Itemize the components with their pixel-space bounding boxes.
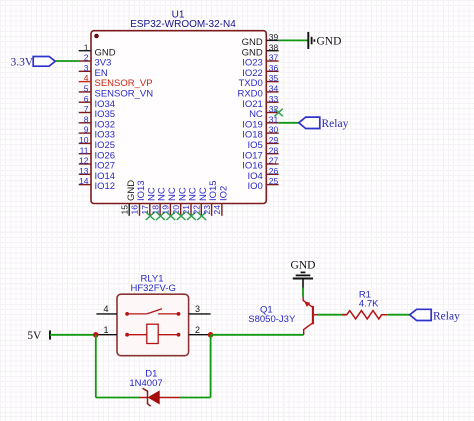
wire bottom right up to relay pin 2 junction xyxy=(210,335,212,398)
ground symbol GND (right of pin 39, rotated) xyxy=(308,32,341,49)
wire junction down left side to D1 xyxy=(95,335,97,398)
U1 pin 30 IO18 (right) xyxy=(242,125,278,141)
svg-text:10: 10 xyxy=(79,135,89,145)
RLY1 pin 4 stub xyxy=(96,304,117,314)
U1 pin 37 IO23 (right) xyxy=(242,53,278,69)
svg-text:4.7K: 4.7K xyxy=(359,298,379,309)
U1 pin 36 IO22 (right) xyxy=(242,63,278,79)
U1 pin 19 no-connect X flag xyxy=(166,212,175,220)
U1 pin 11 IO26 (left) xyxy=(79,145,115,161)
svg-text:2: 2 xyxy=(84,53,89,63)
svg-text:23: 23 xyxy=(202,205,212,215)
transistor Q1 S8050-J3Y xyxy=(303,297,317,335)
svg-text:14: 14 xyxy=(79,176,89,186)
net label Relay (at R1) xyxy=(410,309,460,322)
U1 pin 22 NC (bottom) xyxy=(192,187,209,216)
U1 pin 23 IO15 (bottom) xyxy=(202,180,219,215)
wire Q1 base to R1 xyxy=(318,314,347,316)
U1 pin 31 IO19 (right) xyxy=(242,114,278,130)
RLY1 pin 3 stub xyxy=(189,304,211,314)
wire 5V to relay pin 1 xyxy=(50,334,96,336)
U1 pin 3 EN (left) xyxy=(79,63,108,79)
ground symbol GND (above Q1) xyxy=(291,259,316,288)
wire D1 to bottom right xyxy=(180,397,211,399)
U1 pin 39 GND (right) xyxy=(242,32,279,48)
RLY1 switch contact (top row) xyxy=(125,309,180,316)
svg-text:4: 4 xyxy=(103,304,108,314)
U1 pin 21 no-connect X flag xyxy=(187,212,196,220)
svg-text:11: 11 xyxy=(80,145,89,155)
wire bottom left to D1 anode side xyxy=(96,397,139,399)
U1 pin 25 IO0 (right) xyxy=(247,176,278,192)
U1 pin 4 SENSOR_VP (left) xyxy=(79,73,153,89)
svg-text:36: 36 xyxy=(269,63,279,73)
U1 pin 1 GND (left) xyxy=(79,42,116,58)
svg-text:3: 3 xyxy=(195,304,200,314)
U1 pin 22 no-connect X flag xyxy=(197,212,206,220)
svg-text:IO2: IO2 xyxy=(219,186,230,201)
RLY1 coil (bottom row) xyxy=(125,324,180,343)
U1 pin 18 NC (bottom) xyxy=(150,187,167,216)
U1 pin 26 IO4 (right) xyxy=(247,166,278,182)
svg-text:GND: GND xyxy=(317,35,342,47)
resistor R1 xyxy=(342,311,388,319)
svg-text:IO0: IO0 xyxy=(247,181,262,192)
U1 pin 7 IO35 (left) xyxy=(79,104,115,120)
svg-text:5V: 5V xyxy=(27,330,42,342)
svg-text:24: 24 xyxy=(212,205,222,215)
U1 pin 15 GND (bottom) xyxy=(119,180,136,216)
junction node at relay pin 2 / Q1 / D1 xyxy=(208,332,214,338)
svg-text:35: 35 xyxy=(269,73,279,83)
wire R1 to Relay net label xyxy=(388,314,410,316)
U1 pin 18 no-connect X flag xyxy=(156,212,165,220)
relay RLY1 HF32FV-G body xyxy=(117,294,189,356)
U1 pin 32 NC (right) xyxy=(249,104,279,120)
svg-text:16: 16 xyxy=(130,205,140,215)
U1 pin 10 IO25 (left) xyxy=(79,135,115,151)
svg-text:34: 34 xyxy=(269,84,279,94)
svg-text:15: 15 xyxy=(119,205,129,215)
wire GND symbol to Q1 emitter xyxy=(302,288,304,298)
svg-text:22: 22 xyxy=(192,205,202,215)
U1 pin 14 IO12 (left) xyxy=(79,176,115,192)
svg-text:7: 7 xyxy=(84,104,89,114)
U1 pin 29 IO5 (right) xyxy=(247,135,278,151)
diode D1 1N4007 xyxy=(139,388,180,406)
net label Relay (at U1 pin 31) xyxy=(299,117,349,130)
svg-text:18: 18 xyxy=(150,205,160,215)
U1 pin 12 IO27 (left) xyxy=(79,156,115,172)
U1 pin 27 IO16 (right) xyxy=(242,156,278,172)
U1 pin 13 IO14 (left) xyxy=(79,166,115,182)
svg-text:38: 38 xyxy=(269,42,279,52)
power flag 3.3V xyxy=(11,56,56,68)
svg-text:32: 32 xyxy=(269,104,279,114)
U1 pin 8 IO32 (left) xyxy=(79,114,115,130)
svg-text:28: 28 xyxy=(269,145,279,155)
U1 pin 20 no-connect X flag xyxy=(177,212,186,220)
svg-text:12: 12 xyxy=(79,156,89,166)
U1 pin 17 no-connect X flag xyxy=(146,212,155,220)
svg-text:1: 1 xyxy=(84,42,89,52)
IC U1 ESP32-WROOM-32-N4 body xyxy=(91,31,266,204)
U1 pin 9 IO33 (left) xyxy=(79,125,115,141)
U1 pin 24 IO2 (bottom) xyxy=(212,186,229,216)
svg-text:2: 2 xyxy=(195,325,200,335)
U1 pin 28 IO17 (right) xyxy=(242,145,278,161)
svg-text:26: 26 xyxy=(269,166,279,176)
svg-text:HF32FV-G: HF32FV-G xyxy=(130,283,175,294)
svg-text:9: 9 xyxy=(84,125,89,135)
U1 pin 5 SENSOR_VN (left) xyxy=(79,84,154,100)
U1 pin 33 IO21 (right) xyxy=(242,94,278,110)
svg-text:4: 4 xyxy=(84,73,89,83)
U1 pin 34 RXD0 (right) xyxy=(237,84,278,100)
wire U1 pin 39 to GND symbol xyxy=(279,39,308,41)
U1 pin 35 TXD0 (right) xyxy=(239,73,279,89)
U1 pin-1 indicator dot xyxy=(94,34,99,39)
junction node at relay pin 1 / 5V / D1 xyxy=(93,332,99,338)
svg-text:20: 20 xyxy=(171,205,181,215)
svg-text:Relay: Relay xyxy=(433,310,460,322)
svg-text:31: 31 xyxy=(269,114,279,124)
svg-text:37: 37 xyxy=(269,53,279,63)
U1 pin 2 3V3 (left) xyxy=(79,53,112,69)
svg-text:S8050-J3Y: S8050-J3Y xyxy=(248,314,296,325)
U1 pin 38 GND (right) xyxy=(242,42,279,58)
U1 pin 21 NC (bottom) xyxy=(181,187,198,216)
U1 pin 16 IO13 (bottom) xyxy=(130,180,147,215)
svg-text:Relay: Relay xyxy=(322,118,349,130)
U1 pin 6 IO34 (left) xyxy=(79,94,115,110)
U1 pin 17 NC (bottom) xyxy=(140,187,157,216)
wire relay pin 2 to Q1 collector xyxy=(211,334,304,336)
wire 3.3V flag to U1 pin 2 xyxy=(55,60,78,62)
svg-text:30: 30 xyxy=(269,125,279,135)
svg-text:6: 6 xyxy=(84,94,89,104)
svg-text:39: 39 xyxy=(269,32,279,42)
svg-text:8: 8 xyxy=(84,114,89,124)
svg-text:1: 1 xyxy=(103,325,108,335)
U1 pin 20 NC (bottom) xyxy=(171,187,188,216)
svg-text:25: 25 xyxy=(269,176,279,186)
svg-text:3.3V: 3.3V xyxy=(11,56,34,68)
svg-text:17: 17 xyxy=(140,205,150,215)
svg-text:13: 13 xyxy=(79,166,89,176)
svg-text:ESP32-WROOM-32-N4: ESP32-WROOM-32-N4 xyxy=(130,19,236,30)
wire U1 pin 31 to Relay net label xyxy=(279,122,299,124)
U1 pin 32 no-connect X flag xyxy=(274,109,282,117)
RLY1 pin 1 stub xyxy=(96,325,117,335)
svg-text:19: 19 xyxy=(161,205,171,215)
svg-text:33: 33 xyxy=(269,94,279,104)
svg-text:1N4007: 1N4007 xyxy=(129,378,162,389)
svg-text:29: 29 xyxy=(269,135,279,145)
U1 pin 19 NC (bottom) xyxy=(161,187,178,216)
svg-text:3: 3 xyxy=(84,63,89,73)
svg-text:5: 5 xyxy=(84,84,89,94)
svg-text:27: 27 xyxy=(269,156,279,166)
svg-text:IO12: IO12 xyxy=(95,181,116,192)
svg-text:GND: GND xyxy=(291,259,316,271)
RLY1 pin 2 stub xyxy=(189,325,211,335)
svg-text:21: 21 xyxy=(181,205,191,215)
power flag 5V xyxy=(27,330,50,342)
